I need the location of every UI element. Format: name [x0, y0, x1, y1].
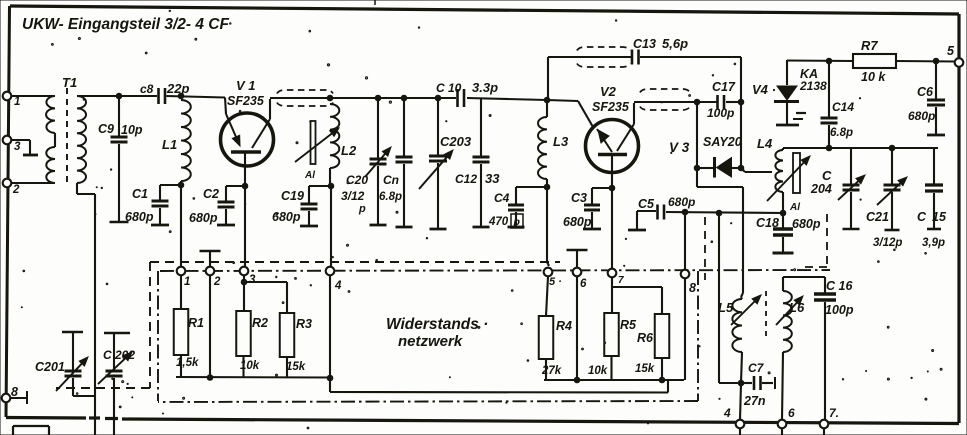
svg-text:C9: C9: [98, 122, 114, 136]
svg-text:C2: C2: [203, 187, 219, 201]
svg-text:C 10: C 10: [436, 81, 462, 95]
svg-text:22p: 22p: [166, 81, 189, 96]
svg-text:Al: Al: [789, 202, 800, 213]
svg-text:6: 6: [788, 406, 795, 420]
svg-text:Al: Al: [304, 170, 315, 181]
svg-text:C20: C20: [346, 173, 368, 187]
svg-text:C19: C19: [281, 189, 304, 203]
svg-text:C18: C18: [756, 216, 779, 230]
svg-text:L3: L3: [553, 134, 569, 149]
svg-text:2138: 2138: [799, 79, 827, 93]
svg-text:R4: R4: [556, 319, 572, 333]
svg-text:SF235: SF235: [227, 94, 265, 108]
svg-text:p: p: [358, 203, 366, 215]
svg-text:p: p: [513, 216, 521, 228]
svg-text:netzwerk: netzwerk: [398, 333, 463, 350]
svg-text:8: 8: [11, 385, 18, 399]
svg-text:C17: C17: [712, 80, 736, 94]
svg-text:680p: 680p: [792, 217, 821, 231]
svg-text:15: 15: [932, 210, 947, 224]
svg-text:R5: R5: [620, 318, 637, 332]
svg-text:SAY20: SAY20: [703, 135, 742, 149]
svg-text:204: 204: [810, 182, 832, 196]
svg-text:T1: T1: [62, 75, 77, 90]
svg-text:C 202: C 202: [103, 348, 135, 362]
svg-text:C201: C201: [35, 360, 65, 374]
svg-text:470: 470: [488, 216, 509, 228]
svg-text:3: 3: [249, 274, 256, 286]
svg-text:C: C: [917, 210, 927, 224]
svg-text:10k: 10k: [588, 365, 608, 377]
svg-text:680p: 680p: [563, 215, 592, 229]
svg-text:7: 7: [618, 275, 624, 286]
svg-text:680p: 680p: [668, 195, 695, 209]
svg-text:C12: C12: [455, 172, 477, 186]
svg-text:Cn: Cn: [383, 173, 399, 187]
svg-text:7.: 7.: [829, 406, 839, 420]
svg-text:V4: V4: [752, 82, 769, 97]
svg-text:15k: 15k: [286, 361, 306, 373]
svg-text:10k: 10k: [240, 360, 260, 372]
svg-text:L4: L4: [757, 136, 773, 151]
svg-text:2: 2: [12, 184, 20, 196]
svg-text:15k: 15k: [635, 363, 655, 375]
svg-text:1: 1: [184, 276, 190, 288]
svg-text:3.3p: 3.3p: [472, 80, 498, 95]
svg-text:1,5k: 1,5k: [176, 357, 199, 369]
svg-text:C6: C6: [917, 85, 934, 99]
svg-text:V 1: V 1: [236, 78, 256, 93]
svg-text:27n: 27n: [743, 394, 766, 408]
svg-text:L2: L2: [341, 143, 357, 158]
svg-text:C21: C21: [866, 210, 889, 224]
svg-text:6.8p: 6.8p: [830, 127, 853, 139]
svg-text:C1: C1: [132, 187, 148, 201]
svg-text:C14: C14: [832, 100, 854, 114]
svg-text:27k: 27k: [541, 365, 562, 377]
svg-text:R7: R7: [861, 38, 878, 53]
svg-text:C: C: [822, 168, 832, 183]
svg-text:L1: L1: [162, 137, 177, 152]
svg-text:c8: c8: [140, 82, 154, 96]
svg-text:33: 33: [485, 171, 500, 186]
svg-text:4: 4: [334, 280, 342, 292]
svg-text:L5: L5: [718, 300, 734, 315]
svg-text:C5: C5: [638, 197, 655, 211]
svg-text:3: 3: [14, 141, 21, 153]
svg-text:5 ·: 5 ·: [549, 276, 562, 288]
svg-text:C 16: C 16: [826, 279, 853, 293]
svg-text:680p: 680p: [908, 109, 935, 123]
svg-text:V2: V2: [600, 84, 617, 99]
svg-text:3,9p: 3,9p: [922, 237, 945, 249]
svg-text:1: 1: [14, 96, 20, 108]
svg-text:10p: 10p: [121, 123, 143, 137]
svg-text:680p: 680p: [272, 210, 301, 224]
svg-text:6: 6: [580, 278, 587, 290]
svg-text:3/12: 3/12: [341, 189, 365, 203]
svg-text:C7: C7: [748, 361, 765, 375]
svg-text:4: 4: [723, 406, 731, 420]
svg-text:UKW- Eingangsteil 3/2- 4 CF: UKW- Eingangsteil 3/2- 4 CF: [22, 16, 230, 33]
svg-text:2: 2: [213, 276, 221, 288]
svg-text:SF235: SF235: [592, 100, 630, 114]
svg-text:C13: C13: [633, 37, 656, 51]
svg-text:3/12p: 3/12p: [873, 237, 902, 249]
svg-text:Widerstands ·: Widerstands ·: [386, 316, 488, 333]
svg-text:100p: 100p: [825, 303, 854, 317]
svg-text:680p: 680p: [189, 211, 218, 225]
svg-text:R6: R6: [637, 331, 654, 345]
svg-text:C203: C203: [440, 134, 472, 149]
svg-text:100p: 100p: [707, 106, 734, 120]
svg-text:680p: 680p: [125, 210, 154, 224]
svg-text:R1: R1: [188, 316, 204, 330]
svg-text:6.8p: 6.8p: [379, 191, 402, 203]
svg-text:R3: R3: [296, 317, 312, 331]
svg-text:C4: C4: [494, 191, 510, 205]
svg-text:C3: C3: [571, 191, 587, 205]
svg-text:8: 8: [689, 281, 696, 295]
svg-text:10 k: 10 k: [861, 70, 886, 84]
svg-text:5,6p: 5,6p: [662, 36, 688, 51]
svg-text:R2: R2: [252, 316, 268, 330]
svg-text:5: 5: [947, 44, 955, 58]
